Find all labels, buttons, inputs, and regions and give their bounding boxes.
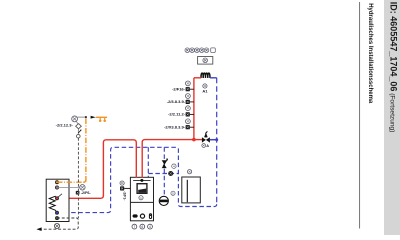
storage tank [46, 179, 69, 221]
wire red to safety valve [194, 139, 202, 141]
tank coil [49, 196, 57, 212]
heating coil element [201, 73, 210, 78]
svg-text:-2/3.8.3.9-: -2/3.8.3.9- [167, 99, 186, 104]
branch terminal 1 (-2/F16-) [172, 87, 194, 92]
check valve sensor (dark) [168, 171, 173, 176]
sensor circle row above control box [185, 48, 215, 53]
node junction red [192, 138, 196, 142]
control box U1 [198, 57, 213, 65]
unit side sensor circle [120, 181, 124, 185]
heat generator unit [130, 177, 153, 221]
label 4 [172, 164, 176, 168]
safety valve A [202, 131, 210, 142]
drain arrow [36, 227, 41, 231]
title block divider line [359, 2, 361, 229]
orange circulation line [57, 117, 86, 182]
unit capsule icon [149, 214, 151, 219]
svg-text:6: 6 [141, 225, 143, 229]
branch sensor 4 circle [186, 119, 191, 124]
wire blue dashed right riser [216, 78, 218, 205]
line diamond down [77, 129, 79, 135]
drain valve symbol [54, 223, 59, 228]
sensor line to junction [78, 116, 86, 118]
small circle [77, 134, 81, 138]
wire blue dashed bottom run to DHW side [178, 147, 216, 206]
unit logo [133, 179, 150, 181]
drain line dashed [41, 218, 78, 229]
orange hanger 1 [99, 117, 101, 120]
svg-text:-2/F1-: -2/F1- [123, 191, 127, 200]
red supply loop from storage tank [57, 140, 136, 199]
label 1 [139, 196, 143, 200]
unit divider [130, 201, 153, 203]
tank sensor well diagonal [58, 194, 63, 198]
orange stub line [96, 116, 107, 118]
svg-text:-2/X3.8.3.9-: -2/X3.8.3.9- [164, 125, 186, 130]
mixing valve assembly sensor [72, 116, 78, 122]
line sensor to diamond [76, 121, 78, 124]
branch sensor 1 circle [186, 81, 191, 86]
svg-text:-2/F16-: -2/F16- [172, 87, 186, 92]
wire blue dashed inner drop [147, 147, 149, 177]
red riser wire [193, 78, 195, 140]
svg-text:-2/F6-: -2/F6- [81, 191, 92, 195]
unit fan icon [140, 214, 144, 218]
pump P1 [159, 196, 168, 205]
wire red to coil [194, 77, 201, 79]
actuator diamond [76, 124, 82, 129]
motor valve V4 [162, 159, 169, 169]
branch terminal 4 (-2/X3.8.3.9-) [164, 125, 194, 130]
unit bottom labels 7 6 4 [132, 224, 152, 229]
gray dashed control cable [77, 138, 79, 218]
unit compressor icon [133, 214, 138, 217]
tank sensor line (-2/F6-) [57, 187, 80, 189]
branch terminal 3 (-2/2.11.2-) [168, 112, 194, 117]
tank connection nodes [56, 181, 59, 220]
branch sensor 3 circle [186, 106, 191, 111]
unit display [137, 184, 147, 194]
DHW tank label [188, 170, 192, 174]
label A1 [202, 84, 208, 94]
wire blue from valve A [210, 139, 217, 141]
svg-text:A: A [206, 144, 209, 148]
branch terminal 2 (-2/3.8.3.9-) [167, 99, 194, 104]
label 5 [171, 191, 175, 195]
flow arrow [91, 116, 96, 119]
DHW tank [182, 177, 201, 203]
svg-text:A1: A1 [202, 88, 208, 93]
node junction blue [215, 138, 218, 141]
branch sensor 2 circle [186, 94, 191, 99]
control box inner symbol [203, 58, 208, 63]
small arrow [78, 131, 80, 134]
svg-text:4: 4 [173, 165, 175, 169]
svg-text:7: 7 [133, 225, 135, 229]
label A [202, 144, 206, 148]
red return to junction [142, 140, 194, 178]
terminal -2/F6- [76, 191, 80, 195]
svg-text:-2/2.12.3-: -2/2.12.3- [56, 123, 74, 128]
sensor circle F6 [80, 185, 85, 190]
orange node [85, 116, 87, 118]
wire blue from coil [210, 77, 217, 79]
orange hanger 2 [104, 117, 106, 120]
svg-text:Hydraulisches Installationssch: Hydraulisches Installationsschema [367, 3, 373, 104]
svg-text:4: 4 [149, 225, 151, 229]
ID strip background [384, 0, 400, 235]
wire blue dashed valve drop [163, 147, 165, 196]
svg-text:-2/2.11.2-: -2/2.11.2- [168, 112, 186, 117]
wire blue dashed control loop left [57, 147, 178, 212]
unit side terminal (-2/F1-) [120, 186, 124, 190]
